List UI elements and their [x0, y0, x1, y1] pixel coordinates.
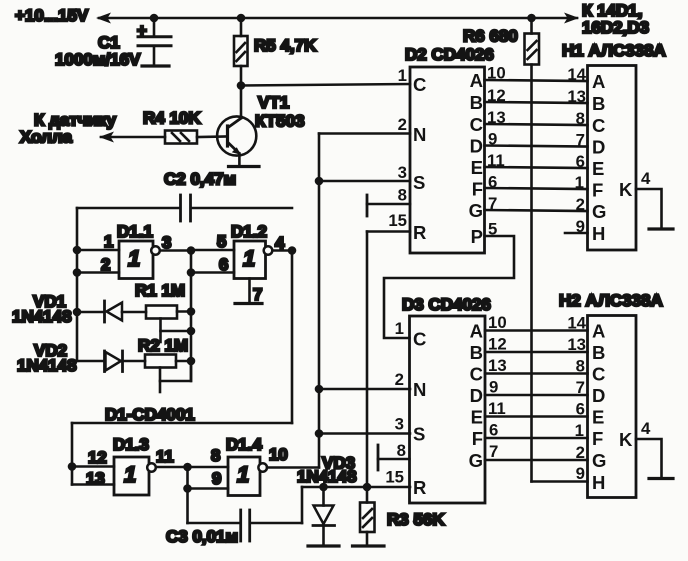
svg-text:R6 680: R6 680	[463, 27, 518, 46]
svg-text:2: 2	[395, 370, 404, 389]
svg-text:D1-CD4001: D1-CD4001	[105, 405, 195, 424]
svg-text:E: E	[471, 157, 483, 178]
svg-text:8: 8	[576, 357, 585, 376]
node rail-C1	[150, 14, 159, 23]
svg-text:11: 11	[156, 447, 174, 466]
node rail-R5	[237, 14, 246, 23]
ground pin7	[235, 302, 262, 305]
svg-text:+: +	[137, 21, 147, 40]
wire R6 top lead	[530, 18, 533, 34]
wire R1 tap stub	[159, 319, 162, 343]
wire R6 to H2 pin9	[532, 480, 588, 483]
node R1 right	[187, 307, 196, 316]
wire H1 K lead	[636, 189, 662, 229]
wire VT1 emitter	[238, 154, 241, 167]
svg-text:D: D	[470, 136, 483, 157]
wire H1 pin9 stub	[565, 232, 588, 235]
wire C1 top lead	[153, 18, 156, 36]
pin labels D2 left	[388, 66, 426, 243]
wire R node horizontal	[302, 486, 410, 489]
svg-text:7: 7	[576, 378, 585, 397]
wire R3 top lead	[366, 487, 369, 503]
svg-text:R: R	[413, 477, 426, 498]
svg-text:9: 9	[212, 469, 221, 488]
wire segment A2	[485, 329, 588, 332]
svg-text:G: G	[592, 201, 606, 222]
node R3	[363, 483, 372, 492]
svg-text:12: 12	[488, 335, 507, 354]
pin numbers H1 side	[567, 65, 586, 236]
svg-text:N: N	[413, 379, 426, 400]
wire R1 tap branch	[161, 330, 192, 333]
wire C3 right	[250, 522, 302, 525]
svg-text:R: R	[413, 222, 426, 243]
node VD3	[319, 483, 328, 492]
svg-text:C: C	[470, 364, 483, 385]
svg-text:10: 10	[488, 313, 507, 332]
svg-text:C: C	[470, 114, 483, 135]
svg-text:16D2,D3: 16D2,D3	[582, 18, 649, 37]
svg-text:D1.1: D1.1	[117, 222, 153, 241]
svg-text:1: 1	[237, 462, 249, 487]
arrow right to K 14D1	[564, 13, 579, 24]
IC H2 АЛС338А	[588, 316, 637, 498]
svg-text:Холла: Холла	[20, 128, 73, 147]
transistor VT1	[217, 116, 256, 155]
svg-text:1: 1	[243, 246, 255, 271]
svg-text:+10...15V: +10...15V	[15, 6, 89, 25]
node N D3	[315, 385, 324, 394]
node S D3	[315, 429, 324, 438]
wire pin9	[188, 487, 229, 490]
wire segment B2	[485, 351, 588, 354]
gate D1.1	[119, 241, 160, 279]
svg-text:D: D	[592, 137, 605, 158]
wire bus to VD2	[77, 360, 104, 363]
svg-text:1: 1	[575, 421, 584, 440]
wire R4 to base	[197, 135, 227, 138]
svg-text:G: G	[469, 200, 483, 221]
wire pin12	[72, 465, 114, 468]
wire pin13	[72, 483, 114, 486]
wire S D2	[319, 180, 410, 183]
svg-text:C: C	[413, 329, 426, 350]
node rail-R6	[527, 14, 536, 23]
wire segment C2	[485, 372, 588, 375]
svg-text:1: 1	[128, 246, 140, 271]
svg-text:1: 1	[124, 462, 136, 487]
svg-text:8: 8	[398, 186, 407, 205]
wire VD3 top lead	[322, 487, 325, 506]
svg-text:2: 2	[576, 443, 585, 462]
resistor R2	[145, 355, 176, 368]
node pin6	[187, 268, 196, 277]
svg-text:13: 13	[567, 87, 586, 106]
resistor R1	[146, 306, 177, 319]
arrow left power	[96, 13, 111, 24]
wire R1 to bus	[177, 310, 191, 313]
wire H2 K lead	[636, 439, 662, 478]
pin numbers H2 side	[567, 314, 586, 484]
pin8 bar D2	[367, 195, 410, 216]
svg-text:VT1: VT1	[258, 93, 289, 112]
svg-text:S: S	[413, 424, 425, 445]
svg-text:F: F	[592, 180, 603, 201]
wire R3 bottom lead	[366, 532, 369, 546]
ground VD3	[308, 544, 339, 547]
svg-text:K: K	[619, 179, 633, 200]
gate D1.2	[234, 241, 272, 279]
svg-text:N: N	[413, 124, 426, 145]
svg-text:A: A	[470, 321, 483, 342]
svg-text:R2 1M: R2 1M	[138, 336, 188, 355]
wire R2 tap branch	[160, 361, 191, 381]
segment letters H1	[592, 71, 651, 244]
wire segment E1	[485, 167, 588, 168]
svg-text:H2 АЛС338А: H2 АЛС338А	[559, 291, 663, 310]
svg-text:D1.2: D1.2	[231, 222, 267, 241]
node collector	[237, 81, 246, 90]
svg-text:4: 4	[641, 169, 651, 188]
svg-text:12: 12	[88, 448, 107, 467]
svg-text:7: 7	[253, 285, 262, 304]
wire bus to VD1	[77, 311, 104, 314]
svg-text:R4 10K: R4 10K	[143, 109, 201, 128]
pin labels D3 right	[469, 313, 507, 471]
capacitor C3	[241, 510, 250, 541]
wire pin1	[77, 249, 119, 252]
svg-text:9: 9	[576, 217, 585, 236]
svg-text:D3 CD4026: D3 CD4026	[402, 295, 491, 314]
diode VD2	[105, 351, 123, 372]
svg-text:A: A	[470, 70, 483, 91]
wire VT1 collector	[240, 86, 243, 119]
svg-text:5: 5	[217, 232, 226, 251]
wire feedback left down	[71, 423, 74, 485]
wire pin11 output	[156, 466, 188, 469]
wire segment E2	[485, 415, 588, 418]
svg-text:A: A	[592, 71, 605, 92]
wire R2 to bus	[176, 360, 191, 363]
wire segment D1	[485, 146, 588, 147]
wire R D2	[367, 230, 410, 233]
wire pin10 output	[267, 466, 319, 469]
resistor R3	[360, 503, 375, 533]
wire P routing	[384, 236, 514, 338]
wire middle bus	[190, 251, 193, 382]
svg-text:A: A	[592, 321, 605, 342]
svg-text:C: C	[592, 115, 605, 136]
svg-text:E: E	[592, 158, 604, 179]
node gate2 out	[288, 246, 297, 255]
node R2 right	[187, 357, 196, 366]
svg-text:3: 3	[398, 163, 407, 182]
svg-text:13: 13	[567, 335, 586, 354]
ground H2 K	[649, 477, 673, 480]
wire VD2 to R2	[123, 360, 146, 363]
node VD1	[73, 308, 82, 317]
node gate1 out	[187, 246, 196, 255]
svg-text:D: D	[592, 385, 605, 406]
svg-text:2: 2	[398, 115, 407, 134]
capacitor C2	[181, 195, 191, 221]
wire pin3 output	[160, 249, 191, 252]
pin labels D3 left	[385, 319, 426, 498]
wire segment F1	[485, 188, 588, 189]
svg-text:6: 6	[576, 152, 585, 171]
svg-text:4: 4	[641, 419, 651, 438]
wire C1 bottom lead	[153, 46, 156, 66]
ground H1 K	[649, 227, 673, 230]
svg-text:15: 15	[388, 211, 407, 230]
svg-text:B: B	[470, 92, 483, 113]
node pin2	[73, 268, 82, 277]
svg-text:1N4148: 1N4148	[12, 307, 72, 326]
wire segment F2	[485, 437, 588, 440]
svg-text:G: G	[469, 450, 483, 471]
wire pin5	[191, 249, 234, 252]
svg-text:14: 14	[567, 314, 586, 333]
wire feedback horizontal	[72, 422, 292, 425]
svg-text:F: F	[472, 428, 483, 449]
pin labels D2 right	[469, 64, 506, 248]
wire gate2 out down bus	[291, 251, 294, 424]
svg-text:КТ503: КТ503	[255, 112, 305, 131]
node R1 tap	[187, 327, 196, 336]
wire segment D2	[485, 394, 588, 397]
wire top power rail	[99, 17, 577, 20]
pin8 bar D3	[378, 445, 410, 470]
svg-text:H: H	[592, 472, 605, 493]
svg-text:8: 8	[576, 109, 585, 128]
svg-text:3: 3	[162, 233, 171, 252]
segment letters H2	[592, 321, 651, 494]
svg-text:S: S	[413, 172, 425, 193]
svg-text:D1.4: D1.4	[226, 435, 262, 454]
svg-text:11: 11	[488, 399, 506, 418]
svg-text:1: 1	[398, 66, 407, 85]
svg-text:C2 0,47м: C2 0,47м	[164, 170, 236, 189]
svg-text:6: 6	[219, 255, 228, 274]
svg-text:G: G	[592, 450, 606, 471]
svg-text:7: 7	[576, 131, 585, 150]
svg-text:H1 АЛС338А: H1 АЛС338А	[562, 41, 666, 60]
svg-text:15: 15	[385, 468, 404, 487]
wire S D3	[319, 432, 410, 435]
ground VT1 emitter	[229, 165, 260, 168]
svg-text:2: 2	[576, 195, 585, 214]
wire pin6	[191, 271, 234, 274]
wire pin2	[77, 271, 119, 274]
wire segment C1	[485, 124, 588, 125]
ground R3	[353, 544, 385, 547]
svg-text:9: 9	[576, 464, 585, 483]
arrow to hall sensor	[99, 132, 114, 143]
wire to C3 left	[188, 522, 241, 525]
svg-text:D2 CD4026: D2 CD4026	[405, 45, 494, 64]
gate D1.4	[228, 457, 267, 496]
svg-text:E: E	[471, 407, 483, 428]
svg-text:6: 6	[576, 400, 585, 419]
svg-text:F: F	[472, 179, 483, 200]
svg-text:2: 2	[101, 255, 110, 274]
wire pin7	[248, 279, 251, 304]
wire R5 top lead	[240, 18, 243, 36]
wire N D3	[319, 388, 410, 391]
svg-text:1N4148: 1N4148	[297, 467, 357, 486]
IC H1 АЛС338А	[588, 66, 637, 251]
resistor R4	[165, 131, 197, 144]
svg-text:10: 10	[269, 445, 288, 464]
svg-text:B: B	[592, 342, 605, 363]
svg-text:D: D	[470, 385, 483, 406]
wire segment G2	[485, 459, 588, 462]
wire top loop right	[191, 207, 292, 210]
svg-text:C: C	[413, 74, 426, 95]
wire R2 tap stub	[159, 368, 162, 393]
svg-text:1N4148: 1N4148	[17, 356, 77, 375]
svg-text:9: 9	[489, 378, 498, 397]
svg-text:6: 6	[489, 421, 498, 440]
node pin12	[68, 462, 77, 471]
svg-text:D1.3: D1.3	[113, 435, 149, 454]
wire VD1 to R1	[122, 311, 146, 314]
resistor R6	[525, 34, 540, 65]
wire pin4 output	[273, 249, 293, 252]
svg-text:E: E	[592, 407, 604, 428]
wire collector to D2 pin C	[241, 84, 410, 86]
wire VD3 bottom lead	[322, 526, 325, 546]
wire N D2	[319, 132, 410, 135]
svg-text:B: B	[470, 342, 483, 363]
svg-text:8: 8	[397, 441, 406, 460]
wire R5 bottom lead	[240, 66, 243, 86]
wire segment G1	[485, 210, 588, 211]
svg-text:R5 4,7K: R5 4,7K	[254, 36, 317, 55]
ground C1	[142, 64, 169, 67]
node S D2	[315, 177, 324, 186]
svg-text:C: C	[592, 364, 605, 385]
wire SN bus vertical	[318, 134, 321, 468]
svg-text:C3 0,01м: C3 0,01м	[166, 527, 238, 546]
svg-text:1: 1	[104, 232, 113, 251]
wire R bus vertical	[366, 232, 369, 488]
svg-text:P: P	[471, 226, 483, 247]
svg-text:K: K	[619, 429, 633, 450]
gate D1.3	[114, 457, 156, 495]
svg-text:1: 1	[575, 173, 584, 192]
diode VD1	[105, 301, 123, 322]
svg-text:1000м/16V: 1000м/16V	[55, 50, 141, 69]
wire arrow to R4	[101, 136, 165, 139]
wire segment A1	[485, 80, 588, 81]
svg-text:B: B	[592, 93, 605, 114]
wire left bus	[76, 208, 79, 361]
capacitor C1	[137, 21, 171, 46]
svg-text:14: 14	[567, 65, 586, 84]
wire segment B1	[485, 102, 588, 103]
wire top loop left	[77, 207, 180, 210]
IC D2 CD4026	[410, 67, 485, 253]
wire pin9 down	[186, 489, 189, 524]
svg-text:1: 1	[395, 319, 404, 338]
IC D3 CD4026	[410, 316, 486, 503]
node pin8 junction	[183, 463, 192, 472]
svg-text:F: F	[592, 428, 603, 449]
wire R6 bus down	[530, 65, 533, 482]
wire pin8-pin9 vertical	[186, 467, 189, 489]
svg-text:7: 7	[489, 442, 498, 461]
svg-text:R3 56K: R3 56K	[387, 510, 445, 529]
diode VD3	[313, 506, 335, 526]
svg-text:H: H	[592, 223, 605, 244]
node pin9 junction	[183, 484, 192, 493]
resistor R5	[234, 36, 248, 66]
node pin1	[73, 246, 82, 255]
svg-text:8: 8	[211, 446, 220, 465]
svg-text:R1 1M: R1 1M	[135, 281, 185, 300]
wire pin8	[188, 466, 229, 469]
wire C3 up to R node	[301, 487, 304, 523]
svg-text:13: 13	[488, 356, 507, 375]
svg-text:3: 3	[395, 415, 404, 434]
